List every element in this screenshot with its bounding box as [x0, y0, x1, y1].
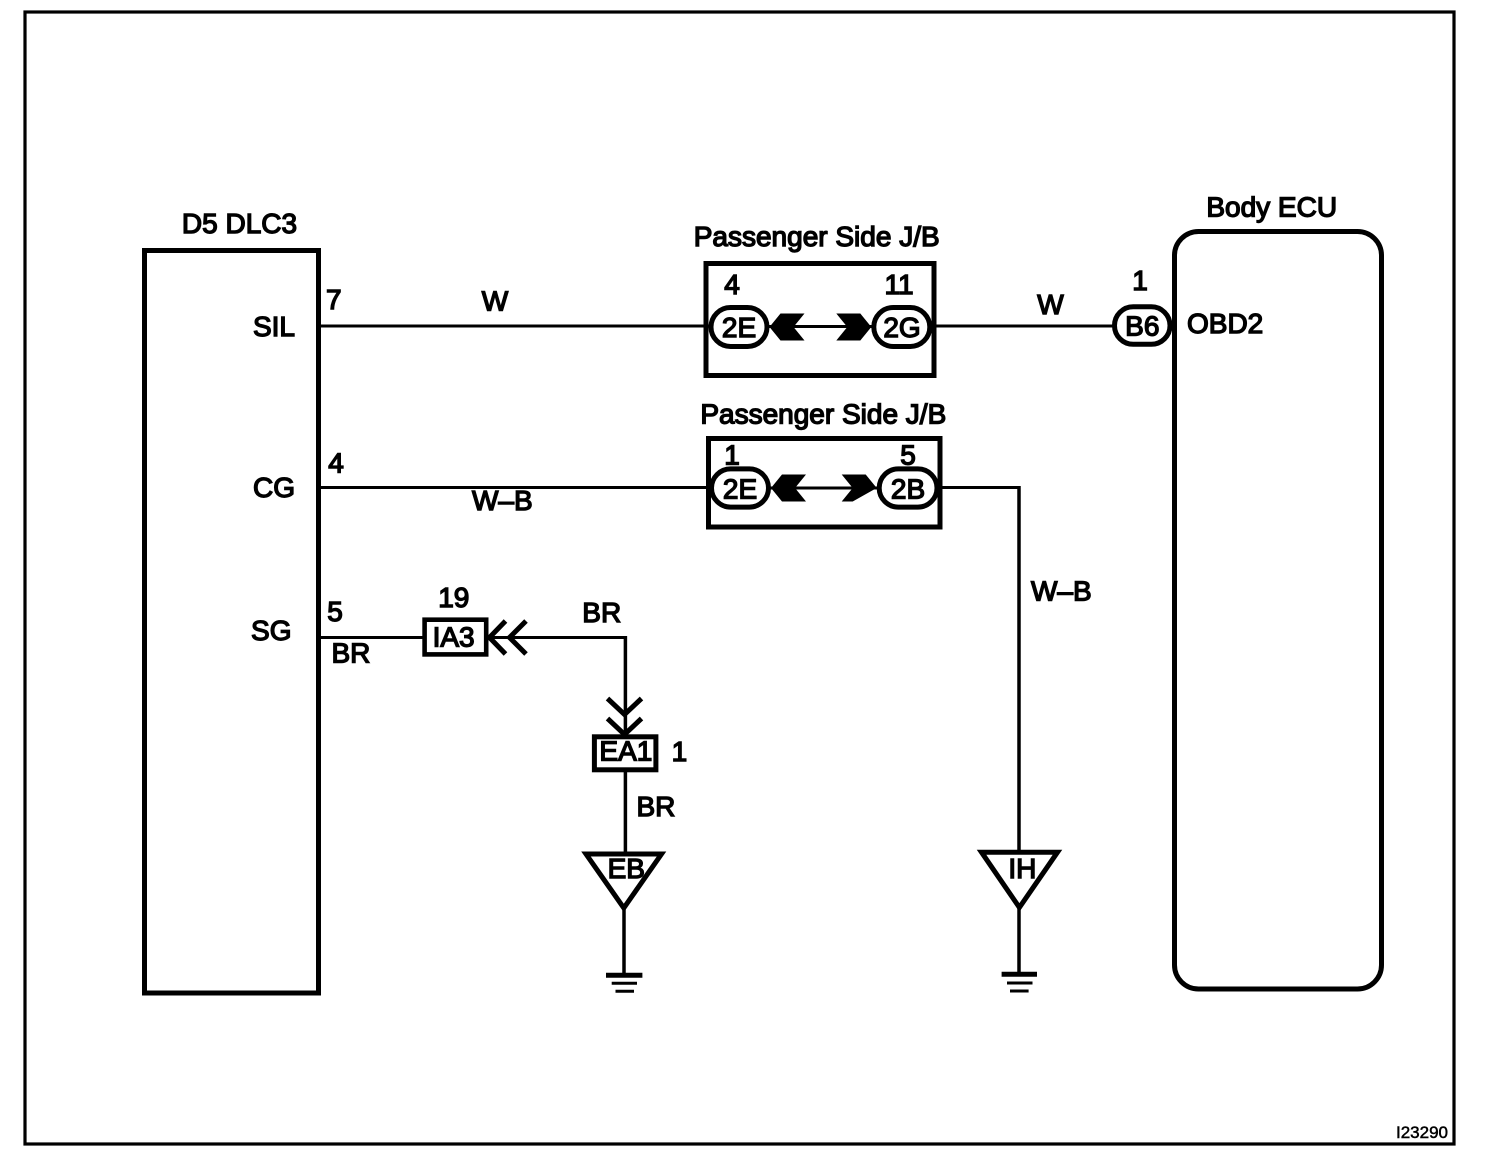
svg-text:W–B: W–B [1031, 576, 1092, 607]
svg-text:EB: EB [608, 853, 645, 884]
svg-text:W: W [1037, 289, 1064, 320]
svg-text:BR: BR [637, 791, 676, 822]
svg-text:5: 5 [900, 440, 916, 471]
svg-text:W–B: W–B [472, 485, 533, 516]
svg-text:11: 11 [884, 269, 913, 300]
svg-text:B6: B6 [1125, 311, 1159, 342]
svg-text:W: W [482, 286, 509, 317]
svg-text:SG: SG [251, 615, 291, 646]
svg-text:IA3: IA3 [433, 622, 475, 653]
svg-text:2G: 2G [883, 312, 920, 343]
svg-text:2E: 2E [722, 312, 756, 343]
svg-text:D5 DLC3: D5 DLC3 [182, 208, 297, 239]
svg-text:OBD2: OBD2 [1187, 308, 1263, 339]
svg-text:7: 7 [326, 284, 342, 315]
svg-text:2E: 2E [723, 474, 757, 505]
svg-text:Passenger Side J/B: Passenger Side J/B [700, 399, 946, 430]
svg-text:1: 1 [724, 440, 740, 471]
svg-text:4: 4 [724, 269, 740, 300]
svg-text:4: 4 [328, 448, 344, 479]
svg-text:Body ECU: Body ECU [1206, 192, 1337, 223]
svg-text:IH: IH [1008, 853, 1036, 884]
svg-text:19: 19 [438, 582, 469, 613]
svg-text:1: 1 [1132, 265, 1148, 296]
svg-text:SIL: SIL [253, 311, 295, 342]
svg-text:1: 1 [672, 736, 688, 767]
svg-text:2B: 2B [891, 474, 925, 505]
svg-text:EA1: EA1 [599, 736, 652, 767]
svg-text:BR: BR [332, 638, 371, 669]
svg-text:BR: BR [582, 597, 621, 628]
svg-text:I23290: I23290 [1396, 1123, 1448, 1142]
svg-text:5: 5 [327, 596, 343, 627]
svg-text:Passenger Side J/B: Passenger Side J/B [694, 221, 940, 252]
svg-text:CG: CG [253, 472, 295, 503]
